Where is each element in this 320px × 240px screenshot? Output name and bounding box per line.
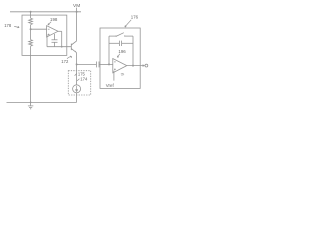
output arrowhead — [143, 64, 145, 67]
wire output down — [61, 31, 63, 46]
output terminal circle — [145, 64, 148, 67]
wire C2 to op-amp inverting input — [99, 63, 113, 65]
wire node to op-amp inverting input — [31, 28, 47, 30]
junction dot R1 top on rail — [30, 11, 32, 13]
wire op-amp output — [58, 30, 62, 32]
wire bottom ground rail — [7, 101, 77, 103]
junction dot feedback left — [108, 63, 110, 65]
op-amp U198 triangle — [47, 26, 58, 37]
wire top rail VM — [10, 11, 81, 13]
leader 174 — [77, 79, 79, 81]
wire emitter down to current source — [76, 53, 78, 85]
block box 178 (reference generator) — [22, 15, 67, 55]
wire feedback riser to plus input — [46, 35, 48, 47]
leader arrow 176 — [125, 20, 131, 27]
wire cap branch left — [109, 42, 119, 44]
junction dot output feedback — [132, 65, 134, 67]
capacitor C2 input plates — [95, 62, 97, 68]
transistor Q1 base bar — [70, 44, 72, 51]
wire cap branch right — [122, 42, 133, 44]
svg-text:196: 196 — [118, 49, 126, 54]
dashed box current source 174 — [68, 71, 90, 95]
current source arrow — [76, 86, 78, 92]
leader arrow 196 — [117, 54, 120, 58]
junction dot VM rail — [76, 11, 78, 13]
wire R2 down to ground rail — [30, 46, 32, 102]
wire current source to ground rail — [76, 93, 78, 103]
resistor R2 — [29, 40, 33, 46]
capacitor C1 plates — [52, 39, 58, 41]
transistor Q1 emitter — [71, 49, 76, 53]
capacitor C1 stub top — [54, 34, 56, 40]
wire R1 top — [30, 12, 32, 18]
wire R1 to node — [30, 25, 32, 40]
op-amp U196 plus sign — [114, 68, 116, 70]
op-amp U196 triangle — [113, 59, 127, 73]
leader arrow 178 — [14, 26, 19, 28]
junction dot emitter tap — [76, 63, 78, 65]
op-amp plus sign — [48, 34, 50, 36]
leader 172 — [67, 56, 72, 59]
svg-text:172: 172 — [61, 59, 69, 64]
switch S1 blade — [116, 33, 124, 37]
wire VM rail down to collector — [76, 12, 78, 41]
switch S1 contact dots — [115, 36, 116, 37]
transistor Q1 emitter arrowhead — [75, 51, 76, 53]
wire feedback left vertical — [108, 36, 110, 64]
wire feedback and base line — [47, 46, 71, 48]
wire output — [127, 65, 144, 67]
svg-text:198: 198 — [50, 17, 58, 22]
leader arrow 198 — [48, 22, 51, 25]
svg-text:Vref: Vref — [106, 83, 115, 88]
wire feedback right vertical — [132, 36, 134, 66]
resistor R1 — [29, 18, 33, 24]
svg-text:178: 178 — [4, 23, 12, 28]
svg-text:174: 174 — [80, 76, 88, 81]
capacitor C3 plates — [118, 41, 120, 46]
junction dot output corner — [61, 46, 63, 48]
wire Vref stub — [113, 71, 115, 81]
block box 176 (integrator) — [100, 28, 140, 88]
op-amp U196 minus sign — [114, 61, 116, 63]
current source I1 circle — [73, 85, 81, 93]
wire switch branch right — [125, 35, 133, 37]
transistor Q1 collector — [71, 41, 76, 45]
junction dot divider node — [30, 28, 32, 30]
wire tap to integrator input — [77, 63, 97, 65]
ground symbol — [30, 102, 32, 104]
wire VM stub down to rail — [76, 8, 78, 12]
op-amp minus sign — [48, 28, 50, 30]
capacitor C1 stub bottom — [54, 43, 56, 47]
svg-text:176: 176 — [131, 15, 139, 20]
mark below op-amp U196 — [121, 73, 124, 75]
wire switch branch left — [109, 35, 116, 37]
leader 175 — [75, 73, 77, 75]
